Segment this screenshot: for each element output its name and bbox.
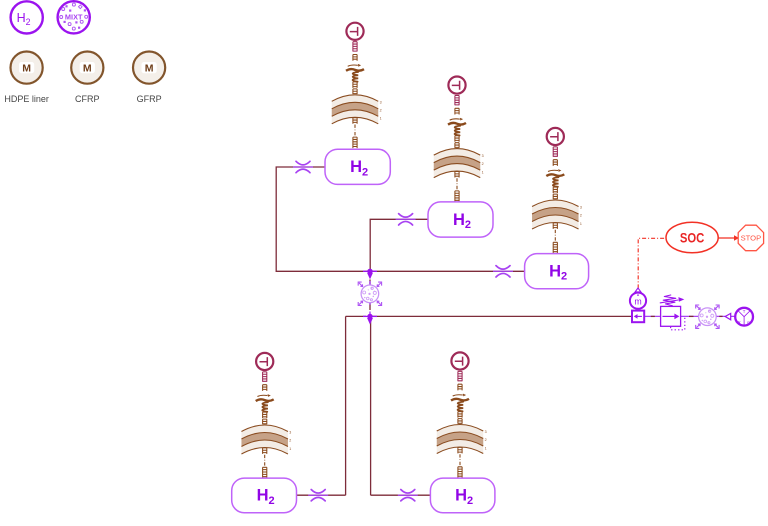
svg-text:X: X xyxy=(738,320,741,325)
svg-text:M: M xyxy=(22,63,31,75)
svg-text:M: M xyxy=(83,63,92,75)
svg-text:M: M xyxy=(145,63,154,75)
svg-text:m: m xyxy=(634,296,641,306)
svg-text:T: T xyxy=(743,309,746,314)
svg-text:CFRP: CFRP xyxy=(75,94,100,104)
svg-text:STOP: STOP xyxy=(741,234,762,243)
svg-text:SOC: SOC xyxy=(680,229,705,245)
svg-text:m: m xyxy=(747,320,751,325)
svg-text:GFRP: GFRP xyxy=(137,94,162,104)
svg-text:HDPE liner: HDPE liner xyxy=(4,94,49,104)
